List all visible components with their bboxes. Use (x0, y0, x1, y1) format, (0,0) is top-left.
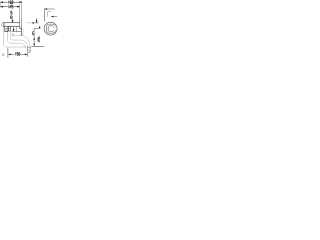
aerator dim line (12, 31, 22, 33)
centerline corner down (33, 29, 35, 38)
phantom line v2 elbow (8, 32, 21, 43)
dim 150 extension left (7, 48, 9, 58)
dim 150 left arrow (8, 54, 11, 56)
G label (32, 32, 33, 35)
dim 150 text (15, 53, 20, 56)
right dim arrow 2 (51, 16, 54, 18)
phantom line v3 elbow (10, 31, 20, 40)
extension line wall face (19, 5, 21, 20)
dim 168 extension tick left (0, 1, 1, 8)
wall line below flange (21, 28, 23, 35)
front view outer circle (44, 22, 57, 35)
front view inner C profile outer boundary (46, 24, 55, 33)
front view inner C profile inner boundary (48, 26, 54, 32)
dim 150 right line (21, 53, 26, 55)
phantom line v1 elbow (4, 27, 32, 47)
dim 150 extension right (26, 53, 28, 56)
aerator block 1 (5, 26, 8, 31)
aerator dim down arrow (13, 27, 15, 29)
dim 150 small text (2, 54, 4, 56)
hose nipple U shape (28, 47, 31, 53)
wall end tick (21, 34, 22, 36)
height dim down arrow (33, 44, 35, 47)
height dim line (33, 40, 35, 44)
aerator dim extension (16, 27, 18, 33)
pipe top line (4, 22, 20, 24)
dim 150 right arrow (25, 54, 28, 56)
spout nose curve (2, 22, 4, 27)
wall flange right edge / wall face (21, 20, 23, 28)
circle top tangent extension line (27, 22, 32, 24)
dim 168 line right (14, 1, 22, 3)
wall hatching (21, 29, 24, 36)
wall flange left edge (19, 20, 21, 28)
small bracket vertical (47, 11, 49, 17)
bottom reference line (32, 45, 44, 47)
height dim up arrow (33, 37, 35, 40)
dim 168 right arrow (19, 1, 22, 3)
right dim extension vertical (43, 8, 45, 21)
small bracket horizontal (48, 11, 52, 13)
pipe bottom line (4, 25, 19, 27)
dim 168 text (8, 1, 13, 4)
phantom spout curves (light) (4, 27, 32, 48)
right dim arrow 1 (45, 8, 48, 10)
front view C opening gap (53, 26, 56, 30)
dim 145 text (8, 5, 13, 8)
dim 145 left arrow (0, 6, 3, 8)
phantom tip cap (12, 33, 14, 36)
extension line spout reach (21, 1, 23, 20)
flange bottom edge (19, 27, 22, 29)
phantom top horizontal with arc to nipple right (13, 35, 30, 47)
dim 145 line right (14, 6, 20, 8)
flange top edge (20, 19, 22, 21)
dim 145 right arrow (17, 6, 20, 8)
front view spout tip tick (53, 26, 55, 28)
inner tangent up arrow (39, 26, 41, 29)
dim 168 line left (1, 1, 8, 3)
spout tip cap (3, 22, 5, 27)
height dim text stacked (38, 37, 40, 42)
dim 168 left arrow (0, 1, 3, 3)
phantom arc h2 fading (20, 43, 26, 49)
vertical dim text 50 stacked (11, 11, 13, 19)
vertical dim down arrow to pipe top (12, 19, 14, 20)
centerline horizontal (34, 28, 40, 30)
tangent dim down arrow (36, 18, 38, 20)
dim 145 line left (1, 6, 8, 8)
phantom arc h3 to nipple left (20, 40, 27, 47)
aerator block 2 (9, 26, 11, 31)
